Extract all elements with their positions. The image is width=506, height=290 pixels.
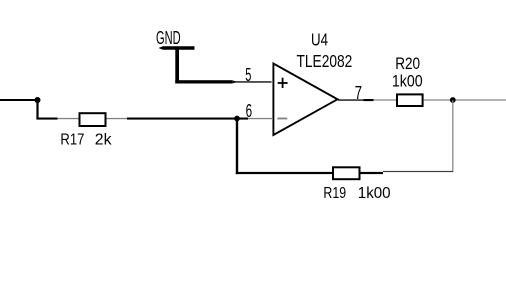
- resistor R19 body: [333, 167, 360, 179]
- wire: feedback vertical from pin-6 junction down: [236, 119, 238, 175]
- svg-text:TLE2082: TLE2082: [297, 51, 353, 71]
- wire: thin feedback run to output column: [383, 171, 453, 172]
- wire: left input horizontal, y=100: [0, 99, 38, 101]
- resistor R20 left pin (gray): [374, 99, 397, 100]
- wire: stub right of R19: [361, 172, 384, 174]
- svg-text:GND: GND: [156, 27, 181, 48]
- wire: GND horizontal thick run to pin 5: [175, 80, 232, 83]
- svg-text:1k00: 1k00: [358, 185, 391, 202]
- svg-text:6: 6: [246, 101, 253, 121]
- wire: horizontal to R17 left pin: [36, 118, 57, 120]
- wire: gray vertical from output junction down to feedback row: [452, 100, 453, 171]
- node: junction at (37.5,100): [35, 97, 41, 103]
- svg-text:R17: R17: [60, 131, 84, 149]
- op-amp plus marking: [278, 82, 288, 84]
- node: junction at (237,118.5): [234, 116, 240, 122]
- svg-text:R19: R19: [323, 185, 346, 202]
- ground: bar symbol: [159, 46, 195, 50]
- wire: vertical drop from junction to lower row: [36, 100, 38, 119]
- wire: feedback horizontal to R19: [236, 172, 332, 174]
- wire: tapered end of thick GND wire: [232, 80, 237, 83]
- svg-text:R20: R20: [395, 55, 420, 73]
- wire: R17 to op-amp inverting input row y=118.5: [127, 118, 248, 120]
- wire: gray output net to right edge: [456, 99, 506, 100]
- wire: GND stem (thick): [175, 48, 179, 84]
- node: junction at (452.8,100): [450, 97, 456, 103]
- op-amp U1 triangle body: [273, 64, 337, 136]
- op-amp minus marking (gray): [277, 118, 287, 120]
- pin 7 lead of op-amp output: [338, 99, 364, 100]
- svg-text:U4: U4: [311, 29, 328, 49]
- svg-text:5: 5: [245, 64, 251, 85]
- resistor R20 body: [397, 94, 423, 106]
- pin 6 lead of op-amp (gray): [248, 118, 272, 119]
- resistor R17 right pin (gray): [107, 118, 128, 119]
- svg-text:1k00: 1k00: [392, 73, 423, 91]
- resistor R17 left pin (gray): [58, 118, 79, 119]
- resistor R20 right pin (gray): [424, 99, 451, 100]
- resistor R17 body: [80, 113, 106, 126]
- svg-text:7: 7: [355, 82, 362, 103]
- pin 5 lead of op-amp: [233, 81, 272, 82]
- wire: short stub from pin 7 to R20: [364, 99, 374, 101]
- svg-text:2k: 2k: [95, 131, 113, 149]
